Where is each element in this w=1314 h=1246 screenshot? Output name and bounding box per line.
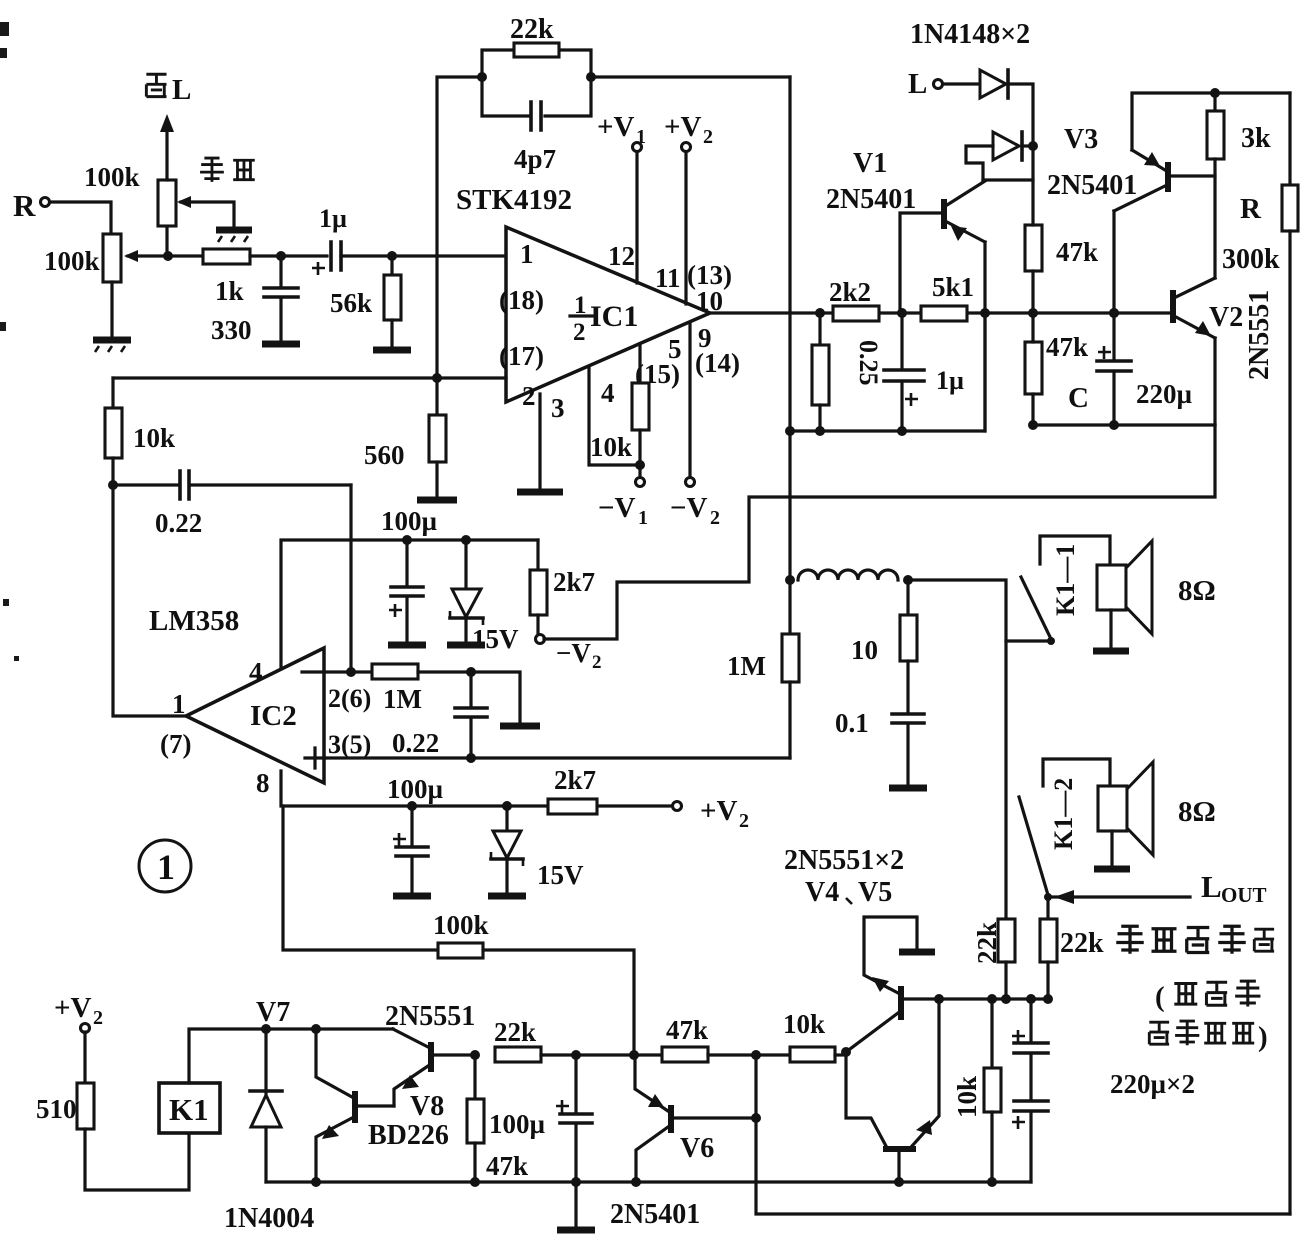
svg-text:10k: 10k: [783, 1009, 825, 1039]
svg-text:OUT: OUT: [1221, 883, 1267, 907]
resistor 2k2: [833, 306, 879, 321]
wire pin 4 rail: [281, 540, 538, 668]
svg-text:100µ: 100µ: [387, 774, 444, 804]
svg-text:2N5551: 2N5551: [1244, 290, 1275, 380]
ground (100u rail1): [388, 642, 426, 649]
svg-text:5k1: 5k1: [932, 272, 974, 302]
terminal -V2: [670, 478, 720, 530]
svg-text:2k2: 2k2: [829, 277, 871, 307]
wire speaker feed: [908, 580, 1006, 919]
resistor R 300k: [1282, 93, 1298, 1214]
terminal +V2 (relay): [54, 992, 103, 1033]
node rail zener junction: [461, 535, 471, 545]
resistor 47k (V7): [467, 1055, 484, 1182]
svg-text:(18): (18): [499, 285, 544, 315]
node 22kL bottom junction: [1001, 994, 1011, 1004]
resistor 22k feedback: [482, 43, 591, 77]
svg-text:−V: −V: [598, 492, 636, 524]
node B junction: [276, 251, 286, 261]
resistor 47k (lower): [1025, 313, 1042, 425]
node 47k bottom junction: [1028, 420, 1038, 430]
wire V6 base: [674, 1116, 756, 1119]
svg-text:47k: 47k: [486, 1151, 528, 1181]
svg-text:L: L: [1201, 869, 1222, 904]
node V4 collector junction: [841, 1047, 851, 1057]
svg-text:K1—2: K1—2: [1049, 778, 1078, 850]
svg-text:8: 8: [256, 768, 270, 798]
svg-text:(7): (7): [160, 729, 191, 759]
wire pin8 to 100k: [283, 806, 438, 950]
node 47k junction: [1028, 308, 1038, 318]
terminal -V2 (rail1): [536, 635, 602, 674]
svg-text:560: 560: [364, 440, 405, 470]
wire bottom ground rail: [266, 1180, 1031, 1183]
transistor V5 2N5551: [846, 999, 939, 1152]
node 0.25 bottom junction: [815, 426, 825, 436]
resistor 0.25: [812, 313, 829, 431]
svg-text:1N4148×2: 1N4148×2: [910, 19, 1030, 50]
node rail 100u junction: [402, 535, 412, 545]
op-amp IC1 STK4192 triangle: [506, 227, 710, 402]
zener diode 15V (rail 1): [450, 540, 483, 642]
svg-text:15V: 15V: [472, 624, 519, 654]
potentiometer RP1 100k (input level): [103, 234, 168, 282]
node D2 junction: [1028, 141, 1038, 151]
transistor V6 2N5401: [635, 1055, 674, 1182]
resistor 47k (V6): [662, 1047, 708, 1062]
node V6 base junction: [751, 1113, 761, 1123]
svg-text:8Ω: 8Ω: [1178, 796, 1216, 828]
resistor 10k (V5): [984, 999, 1001, 1182]
resistor 100k (feedback to V6): [438, 943, 483, 958]
svg-text:22k: 22k: [510, 14, 554, 45]
wire R input to pot: [50, 202, 111, 234]
resistor 3k: [1207, 93, 1224, 278]
wire pin 3(5) run: [324, 756, 790, 759]
svg-text:2: 2: [592, 652, 602, 673]
wire V4 base rail: [904, 997, 1048, 1000]
svg-text:22k: 22k: [494, 1017, 536, 1047]
resistor 22k (V7): [495, 1047, 541, 1062]
resistor 1M (IC2): [372, 664, 418, 679]
diode 1N4004: [250, 1029, 282, 1182]
wire pin 4 stub: [589, 367, 640, 465]
wire V5 base stem: [897, 1152, 900, 1182]
svg-text:BD226: BD226: [368, 1120, 449, 1151]
capacitor 1u (NFB): [884, 313, 924, 431]
capacitor 1u input: [312, 242, 392, 275]
relay coil K1: [159, 1083, 220, 1133]
transistor V3 2N5401: [1114, 150, 1171, 211]
svg-text:+V: +V: [700, 795, 738, 827]
svg-text:2: 2: [703, 126, 713, 148]
node rail 10k junction: [987, 1177, 997, 1187]
svg-text:510: 510: [36, 1094, 77, 1124]
resistor 10k (V4 drive): [790, 1047, 835, 1062]
svg-text:0.1: 0.1: [835, 708, 869, 738]
speaker SP2 8ohm: [1094, 762, 1153, 869]
ground (RP1): [93, 282, 131, 352]
svg-text:−V: −V: [556, 638, 591, 668]
svg-text:11: 11: [655, 263, 681, 293]
node V3 collector junction: [1109, 308, 1119, 318]
svg-text:100µ: 100µ: [489, 1109, 546, 1139]
svg-text:22k: 22k: [972, 922, 1002, 964]
wire 10k to V4 collector: [835, 1053, 846, 1056]
feedback resistor 10k (to IC2): [105, 378, 122, 485]
svg-text:2: 2: [93, 1007, 103, 1029]
wire 47k to 10k: [708, 1053, 790, 1056]
svg-text:V1: V1: [853, 148, 887, 179]
resistor 2k7 (rail 2): [548, 799, 597, 814]
wire pin2 feedback node: [113, 376, 506, 379]
resistor 560: [429, 378, 446, 497]
wire NFB rail: [790, 313, 985, 431]
wire D2 anode step: [966, 146, 993, 180]
node inductor right junction: [903, 575, 913, 585]
node pin 3(5) junction: [466, 753, 476, 763]
svg-text:1: 1: [636, 126, 646, 148]
capacitor 0.22 feedback: [113, 471, 351, 499]
svg-text:C: C: [1068, 382, 1089, 414]
svg-text:V2: V2: [1209, 302, 1243, 333]
input terminal R: [13, 188, 50, 223]
svg-text:2(6): 2(6): [328, 684, 371, 713]
svg-text:2N5401: 2N5401: [826, 184, 916, 215]
terminal +V2 (rail2): [673, 795, 750, 832]
capacitor 0.22 (IC2): [455, 672, 487, 758]
capacitor 0.1 (zobel): [892, 714, 924, 785]
svg-text:100k: 100k: [44, 246, 100, 276]
svg-text:47k: 47k: [1056, 237, 1098, 267]
svg-text:330: 330: [211, 315, 252, 345]
svg-text:1N4004: 1N4004: [224, 1203, 314, 1234]
resistor 2k7 (rail 1): [530, 540, 547, 634]
resistor 22k (right vertical): [1040, 919, 1057, 999]
node 100u junction: [571, 1050, 581, 1060]
svg-text:L: L: [172, 74, 191, 106]
svg-text:22k: 22k: [1060, 928, 1104, 959]
svg-text:47k: 47k: [666, 1015, 708, 1045]
wire 1k to node B: [250, 254, 327, 257]
node NFB rail junction: [785, 426, 795, 436]
capacitor 100u (rail 2): [393, 806, 428, 893]
node rail V8 junction: [311, 1177, 321, 1187]
node rail 100u junction: [571, 1177, 581, 1187]
svg-text:IC1: IC1: [590, 300, 638, 333]
node 3k top junction: [1210, 88, 1220, 98]
svg-text:47k: 47k: [1046, 332, 1088, 362]
svg-text:10: 10: [851, 635, 878, 665]
transistor V4 2N5551: [846, 917, 917, 1052]
svg-text:1M: 1M: [383, 684, 422, 714]
svg-text:4p7: 4p7: [514, 144, 556, 174]
ground (56k): [373, 347, 411, 354]
relay contact K1-1: [1021, 536, 1110, 645]
node 22kR bottom junction: [1043, 994, 1053, 1004]
node rail V6 junction: [631, 1177, 641, 1187]
svg-text:1: 1: [520, 239, 534, 269]
node 1u bottom junction: [897, 426, 907, 436]
svg-text:2k7: 2k7: [554, 765, 596, 795]
node rail2 zener junction: [502, 801, 512, 811]
svg-text:V3: V3: [1064, 124, 1098, 155]
node V6 emitter junction: [629, 1050, 639, 1060]
wire -V2 to pin 9: [688, 324, 691, 477]
node rail 47k junction: [470, 1177, 480, 1187]
resistor 1M (speaker): [782, 634, 799, 758]
wire -V2 sense zigzag: [544, 425, 1215, 639]
svg-text:4: 4: [601, 378, 615, 408]
svg-text:(: (: [1155, 981, 1165, 1013]
svg-text:2: 2: [522, 381, 536, 411]
node diode top junction: [261, 1024, 271, 1034]
wire IC1 output run: [710, 311, 1173, 314]
node rail V5 junction: [894, 1177, 904, 1187]
svg-text:K1: K1: [169, 1092, 209, 1127]
svg-text:K1—1: K1—1: [1051, 544, 1080, 616]
wire relay stub K1-1: [1006, 639, 1047, 642]
svg-text:V5: V5: [858, 877, 892, 908]
ground (100u V6): [557, 1227, 595, 1234]
svg-text:(17): (17): [499, 341, 544, 371]
node rail2 100u junction: [407, 801, 417, 811]
terminal +V2: [664, 111, 713, 152]
svg-text:+V: +V: [664, 111, 702, 143]
resistor 22k (left vertical): [998, 919, 1015, 999]
figure number 1: [139, 840, 191, 892]
minus input marker: [302, 670, 322, 673]
node C junction: [387, 251, 397, 261]
svg-text:+V: +V: [597, 111, 635, 143]
arrow to L channel: [160, 114, 174, 180]
ground (1M): [500, 723, 540, 730]
svg-text:STK4192: STK4192: [456, 184, 572, 216]
node feedback junction: [108, 480, 118, 490]
wire LOUT with arrow: [1052, 890, 1190, 904]
inductor L1: [798, 570, 898, 580]
terminal -V1: [598, 478, 648, 530]
svg-text:15V: 15V: [537, 860, 584, 890]
svg-text:0.25: 0.25: [854, 340, 883, 386]
node V5 emitter junction: [934, 994, 944, 1004]
transistor V2 2N5551: [1170, 278, 1215, 338]
ground (zobel): [889, 785, 927, 792]
svg-text:1M: 1M: [727, 651, 766, 681]
ground (zener rail2): [488, 893, 526, 900]
svg-text:100µ: 100µ: [381, 506, 438, 536]
svg-text:8Ω: 8Ω: [1178, 575, 1216, 607]
node C bottom junction: [1109, 420, 1119, 430]
svg-text:1: 1: [638, 507, 648, 529]
svg-text:LM358: LM358: [149, 605, 239, 637]
svg-text:1µ: 1µ: [936, 366, 964, 395]
node 22k left junction: [477, 72, 487, 82]
wire node X to bottom return: [756, 1055, 1290, 1214]
node 0.25 junction: [815, 308, 825, 318]
node 10k top junction: [987, 994, 997, 1004]
svg-text:300k: 300k: [1222, 244, 1280, 275]
node 0.22 junction: [466, 667, 476, 677]
capacitor 100u (rail 1): [389, 540, 423, 642]
svg-text:4: 4: [249, 657, 263, 687]
node 220u top junction: [1026, 994, 1036, 1004]
ground (zener rail1): [447, 642, 485, 649]
transistor V8 BD226: [316, 1029, 394, 1182]
terminal +V1: [597, 111, 646, 152]
svg-text:2k7: 2k7: [553, 567, 595, 597]
svg-text:2N5401: 2N5401: [1047, 170, 1137, 201]
wire emitter return: [1033, 423, 1215, 426]
wire node C to IC1 pin1: [392, 254, 506, 257]
resistor 10k (pin4): [632, 345, 649, 477]
svg-text:3: 3: [551, 393, 565, 423]
svg-text:R: R: [1240, 193, 1262, 225]
svg-text:V6: V6: [680, 1133, 714, 1164]
resistor 510: [77, 1032, 189, 1190]
note line 2: [1155, 981, 1260, 1013]
wire +V2 to pin 11: [684, 152, 687, 304]
capacitor 220u upper: [1012, 999, 1048, 1053]
wire V1 emitter: [983, 242, 986, 431]
svg-text:2: 2: [573, 319, 586, 346]
svg-text:+V: +V: [54, 992, 92, 1024]
svg-text:12: 12: [608, 241, 635, 271]
label V4 V5: [805, 877, 892, 908]
svg-text:(14): (14): [695, 348, 740, 378]
wire V3 base: [1171, 174, 1215, 177]
svg-text:2N5401: 2N5401: [610, 1199, 700, 1230]
svg-text:V4: V4: [805, 877, 839, 908]
svg-text:0.22: 0.22: [392, 728, 439, 758]
wire V1 collector: [983, 178, 1033, 181]
wire pot wiper node: [165, 226, 168, 256]
svg-text:2N5551×2: 2N5551×2: [784, 845, 904, 876]
ground (balance wiper): [216, 230, 252, 242]
terminal L: [908, 68, 943, 100]
wire V7 base: [434, 1053, 475, 1056]
wire V3 collector: [1112, 211, 1115, 313]
svg-text:2: 2: [739, 810, 749, 832]
wire node A to 1k: [168, 254, 203, 257]
label LOUT: [1201, 869, 1267, 907]
svg-text:3k: 3k: [1241, 123, 1271, 154]
pin 3 ground stub: [517, 394, 563, 492]
svg-text:L: L: [908, 68, 927, 100]
svg-text:100k: 100k: [433, 910, 489, 940]
node A junction: [163, 251, 173, 261]
diode D1 1N4148: [943, 70, 1033, 146]
svg-text:220µ×2: 220µ×2: [1110, 1069, 1195, 1099]
svg-text:10k: 10k: [590, 432, 632, 462]
svg-text:1µ: 1µ: [319, 204, 347, 233]
speaker SP1 8ohm: [1093, 541, 1152, 651]
resistor 10 (zobel): [900, 580, 917, 712]
svg-text:V8: V8: [410, 1091, 444, 1122]
node pin2(6) junction: [346, 667, 356, 677]
ground (100u rail2): [393, 893, 431, 900]
svg-text:IC2: IC2: [250, 700, 297, 732]
svg-text:0.22: 0.22: [155, 508, 202, 538]
ground (V4): [899, 949, 935, 956]
plus input marker: [305, 748, 325, 768]
wire V3 emitter to top rail: [1132, 93, 1290, 150]
node X junction: [751, 1050, 761, 1060]
ground (560): [417, 497, 457, 504]
node 22k right junction: [586, 72, 596, 82]
svg-text:1: 1: [157, 847, 175, 887]
node 5k1 right junction: [980, 308, 990, 318]
capacitor 220u lower: [1012, 1055, 1048, 1182]
label 22k + channel note: [1060, 926, 1274, 959]
wire pin 8 rail: [281, 771, 672, 806]
svg-text:10k: 10k: [952, 1076, 982, 1118]
wire 22k to cap node: [541, 1053, 662, 1056]
wire feedback top run: [437, 77, 790, 378]
op-amp IC2 LM358 triangle: [186, 648, 324, 783]
resistor 1k: [203, 249, 250, 264]
wire pin 2(6): [324, 670, 372, 673]
wire 0.22 down to IC2 pin2: [349, 485, 352, 672]
label 1/2 IC1: [570, 292, 638, 346]
zener diode 15V (rail 2): [491, 806, 523, 893]
svg-text:R: R: [13, 188, 36, 223]
note line 3: [1149, 1021, 1267, 1053]
node -V1 junction: [635, 460, 645, 470]
wire IC2 output line: [113, 485, 186, 716]
svg-text:2: 2: [710, 507, 720, 529]
node V8 collector junction: [311, 1024, 321, 1034]
resistor 47k (upper): [1025, 146, 1042, 313]
svg-text:56k: 56k: [330, 288, 372, 318]
svg-text:10k: 10k: [133, 423, 175, 453]
wire K1-2 to 22k right: [1046, 897, 1049, 919]
wire 1M to ground stub: [418, 672, 520, 723]
svg-text:220µ: 220µ: [1136, 379, 1193, 409]
transistor V1 2N5401: [941, 181, 985, 242]
label 平衡: [200, 158, 255, 182]
capacitor 100u (V6 base): [556, 1055, 592, 1227]
svg-text:−V: −V: [670, 492, 708, 524]
wire speaker line vertical: [788, 77, 791, 634]
node C top junction: [1109, 308, 1119, 318]
wire 100k to V6 node: [483, 950, 634, 1054]
node inductor left junction: [785, 575, 795, 585]
diode D2 1N4148: [993, 132, 1033, 160]
resistor 5k1: [921, 306, 967, 321]
node pin2 junction: [432, 373, 442, 383]
node 22k left junction (V7): [470, 1050, 480, 1060]
svg-text:): ): [1258, 1021, 1268, 1053]
ground (330): [262, 341, 300, 348]
transistor V7 2N5551: [393, 1029, 434, 1106]
node V1 base junction: [897, 308, 907, 318]
wire V1 base: [900, 213, 941, 313]
svg-text:1k: 1k: [215, 276, 244, 306]
capacitor 4p7: [482, 77, 591, 130]
wire K1 to V7 rail: [189, 1029, 393, 1083]
svg-text:2N5551: 2N5551: [385, 1001, 475, 1032]
svg-text:V7: V7: [256, 997, 290, 1028]
wire +V1 to pin 12: [635, 152, 638, 283]
svg-text:100k: 100k: [84, 162, 140, 192]
resistor 56k: [384, 256, 401, 347]
potentiometer RP2 100k (balance): [158, 180, 234, 227]
wire V2 emitter: [1213, 338, 1216, 425]
capacitor 330: [264, 256, 298, 341]
svg-text:3(5): 3(5): [328, 730, 371, 759]
capacitor C 220u: [1097, 313, 1131, 425]
